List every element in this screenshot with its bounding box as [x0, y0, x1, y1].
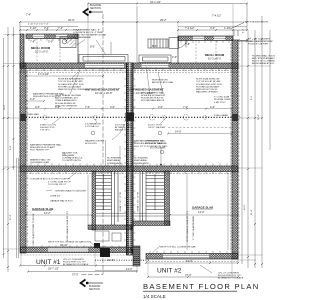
svg-text:10'-2 x 8'-3: 10'-2 x 8'-3: [208, 57, 221, 61]
svg-text:7'-4": 7'-4": [26, 13, 31, 17]
svg-text:GARAGE SLAB: GARAGE SLAB: [32, 207, 53, 211]
svg-text:1'-10": 1'-10": [30, 26, 37, 30]
svg-text:4" CONC SLAB PITCH: 4" CONC SLAB PITCH: [48, 180, 71, 183]
svg-text:AT BEAM W/ STOCKADE: AT BEAM W/ STOCKADE: [63, 263, 89, 266]
svg-text:BED, BTM PLATE ANCHOR: BED, BTM PLATE ANCHOR: [252, 57, 275, 60]
svg-text:16'-0": 16'-0": [186, 259, 193, 263]
svg-text:7'-4 1/2": 7'-4 1/2": [212, 13, 222, 17]
svg-text:GARAGE SLAB: GARAGE SLAB: [192, 205, 213, 209]
svg-text:MECH. ROOM: MECH. ROOM: [205, 53, 225, 57]
svg-text:SHADOW OPENINGS: SHADOW OPENINGS: [55, 104, 78, 107]
svg-text:30'-0": 30'-0": [4, 104, 6, 110]
svg-text:LOWER BATH: LOWER BATH: [134, 162, 149, 165]
svg-text:21'-4": 21'-4": [251, 209, 253, 215]
svg-text:37'-0": 37'-0": [72, 272, 79, 276]
svg-text:AND TUB AREAS. SET: AND TUB AREAS. SET: [55, 97, 79, 100]
svg-text:ABOVE FLATS SLAB: ABOVE FLATS SLAB: [152, 81, 174, 84]
svg-text:BASEMENT FLOOR PLAN: BASEMENT FLOOR PLAN: [143, 282, 260, 291]
svg-text:CONCRETE BLOCK TO FROST DEPTH: CONCRETE BLOCK TO FROST DEPTH: [30, 178, 70, 180]
svg-text:17'-4 1/2": 17'-4 1/2": [38, 72, 49, 76]
svg-text:WALL EA SIDE W/ CONC: WALL EA SIDE W/ CONC: [248, 40, 274, 43]
svg-text:11'-6": 11'-6": [108, 258, 114, 262]
svg-text:FUTURE (42x36) BATH: FUTURE (42x36) BATH: [196, 85, 220, 88]
svg-text:WINDOW NOTCH OPENING: WINDOW NOTCH OPENING: [58, 89, 87, 91]
svg-text:ON 12" DIA PIER: ON 12" DIA PIER: [148, 126, 165, 129]
svg-text:AND MEMBRANE: AND MEMBRANE: [73, 36, 91, 39]
svg-text:DROP SLAB AT SHOWER: DROP SLAB AT SHOWER: [55, 94, 81, 97]
svg-text:4" CONC SLAB W/ WWM: 4" CONC SLAB W/ WWM: [192, 216, 195, 240]
svg-text:CONC KNEE WALL: CONC KNEE WALL: [20, 113, 40, 116]
svg-text:CURB 3/4": CURB 3/4": [50, 195, 61, 197]
svg-text:INSULATE W/ R-13 BATT: INSULATE W/ R-13 BATT: [30, 146, 56, 149]
svg-text:BEARING WALL ON: BEARING WALL ON: [30, 158, 51, 161]
svg-text:HOOK-UPS: HOOK-UPS: [85, 143, 97, 145]
svg-text:8'-0": 8'-0": [90, 45, 95, 49]
svg-text:12'-4": 12'-4": [10, 214, 12, 220]
svg-text:POURED WALL IN STONE: POURED WALL IN STONE: [252, 54, 275, 57]
svg-text:HOSE BIB W/ SHADOW: HOSE BIB W/ SHADOW: [141, 94, 166, 97]
svg-text:14'-0": 14'-0": [175, 130, 182, 134]
svg-text:UNFINISHED BASEMENT: UNFINISHED BASEMENT: [129, 88, 164, 92]
svg-text:4" CONC SLAB: 4" CONC SLAB: [214, 96, 230, 99]
svg-text:8'-0": 8'-0": [152, 44, 157, 48]
svg-text:7'-8": 7'-8": [185, 42, 190, 46]
svg-text:TYP OF 6: TYP OF 6: [40, 130, 50, 132]
svg-text:2x4 STUD WALL: 2x4 STUD WALL: [115, 123, 132, 126]
svg-text:TYP CONCRETE WALL: TYP CONCRETE WALL: [141, 91, 165, 94]
svg-text:STL BM ABOVE: STL BM ABOVE: [85, 122, 101, 125]
svg-text:TYP. BASEMENT WALL: 8": TYP. BASEMENT WALL: 8": [73, 28, 100, 31]
svg-text:4'-0": 4'-0": [158, 105, 163, 109]
svg-text:19'-0": 19'-0": [244, 204, 246, 210]
svg-text:DRAIN TILE IN WASHED STONE: DRAIN TILE IN WASHED STONE: [73, 34, 107, 37]
svg-text:FUTURE (42x36) BATH: FUTURE (42x36) BATH: [58, 85, 82, 88]
svg-text:UNFINISHED BASEMENT: UNFINISHED BASEMENT: [85, 88, 120, 92]
svg-text:14'-2": 14'-2": [198, 210, 205, 214]
svg-text:4'-0": 4'-0": [35, 105, 40, 109]
svg-text:1/4 SCALE: 1/4 SCALE: [143, 294, 166, 299]
svg-text:16R AT 7 3/4" / 10" TR: 16R AT 7 3/4" / 10" TR: [137, 191, 140, 212]
svg-text:FILLED 8" DIA PIER: FILLED 8" DIA PIER: [248, 43, 268, 46]
svg-text:HOSE BIB IN BASEMENT: HOSE BIB IN BASEMENT: [58, 78, 84, 81]
svg-text:6 MIL POLY: 6 MIL POLY: [214, 102, 226, 104]
svg-text:7'-8": 7'-8": [30, 40, 35, 44]
svg-text:SLOPE GARAGE SLAB 1/8" / FT: SLOPE GARAGE SLAB 1/8" / FT: [186, 211, 189, 242]
svg-text:BASEMENT PERIMETER WALL: BASEMENT PERIMETER WALL: [134, 140, 167, 143]
svg-text:BSMT AREA: BSMT AREA: [134, 159, 147, 162]
svg-text:FULL HEIGHT TYP: FULL HEIGHT TYP: [30, 150, 49, 152]
svg-text:BASEMENT PERIMETER WALL: BASEMENT PERIMETER WALL: [30, 143, 63, 146]
svg-text:29'-7 1/2": 29'-7 1/2": [48, 267, 59, 271]
svg-text:14'-2": 14'-2": [44, 211, 51, 215]
svg-text:ROUGH-IN BATH W/: ROUGH-IN BATH W/: [55, 102, 76, 105]
svg-text:EA SIDE 1HR: EA SIDE 1HR: [115, 129, 129, 132]
svg-text:1'-10": 1'-10": [224, 26, 231, 30]
svg-text:29'-2": 29'-2": [160, 18, 167, 22]
svg-text:LOWER BATH: LOWER BATH: [107, 162, 122, 165]
svg-text:POST EA SIDE ABOVE: POST EA SIDE ABOVE: [245, 20, 269, 23]
svg-text:MASONRY OPENING: MASONRY OPENING: [196, 91, 218, 94]
svg-text:3'-4": 3'-4": [210, 26, 215, 30]
svg-text:16R AT 7 3/4" / 10" TR: 16R AT 7 3/4" / 10" TR: [119, 191, 122, 212]
svg-text:9'-8": 9'-8": [10, 145, 12, 150]
svg-text:3'-0": 3'-0": [48, 40, 53, 44]
svg-text:UNIT #2: UNIT #2: [157, 268, 182, 275]
svg-text:NOTE SLAB IS BELOW: NOTE SLAB IS BELOW: [196, 78, 220, 81]
svg-text:9'-0": 9'-0": [251, 95, 253, 100]
svg-text:DROP TOP SILL COURSE ON GAR DO: DROP TOP SILL COURSE ON GAR DOOR: [48, 240, 91, 243]
svg-text:SECTION: SECTION: [90, 7, 101, 10]
svg-text:SLOPE GARAGE SLAB 1/8" / FT: SLOPE GARAGE SLAB 1/8" / FT: [66, 211, 69, 242]
svg-text:TO DOOR 1/8 / FT: TO DOOR 1/8 / FT: [48, 184, 67, 186]
svg-text:3'-4": 3'-4": [44, 26, 49, 30]
svg-text:DROP TOP SILL COURSE ON GAR: DROP TOP SILL COURSE ON GAR: [160, 246, 196, 249]
svg-text:BSMT AREA: BSMT AREA: [107, 159, 120, 162]
svg-text:4'-0": 4'-0": [210, 105, 215, 109]
svg-text:4'-0": 4'-0": [172, 55, 177, 59]
svg-text:3-1/2 DIA COL: 3-1/2 DIA COL: [85, 125, 100, 128]
svg-text:AT BEAM W/ STOCKADE: AT BEAM W/ STOCKADE: [218, 277, 244, 280]
svg-text:7'-0": 7'-0": [85, 105, 90, 109]
svg-text:STEEL BEAM: STEEL BEAM: [214, 114, 228, 117]
svg-text:ANCHORAGE AT SILL TYP: ANCHORAGE AT SILL TYP: [252, 62, 275, 65]
svg-text:TOP OF SILL AT 48" AFF: TOP OF SILL AT 48" AFF: [196, 80, 221, 83]
svg-text:4" CONC SLAB PITCHED TO DOOR: 4" CONC SLAB PITCHED TO DOOR: [32, 213, 35, 248]
svg-text:VISIBLE AREA UNITS: VISIBLE AREA UNITS: [55, 99, 77, 102]
svg-text:37'-0": 37'-0": [185, 273, 192, 277]
svg-text:4'-0": 4'-0": [110, 105, 115, 109]
svg-text:INSULATE W/ R-13 IN THERMAL: INSULATE W/ R-13 IN THERMAL: [134, 142, 168, 145]
svg-text:GARAGE WALTS R 13: GARAGE WALTS R 13: [50, 199, 73, 202]
svg-text:44'-1 1/2": 44'-1 1/2": [150, 0, 161, 4]
svg-text:1'-10" 3'-4" 2'-0" 7'-4": 1'-10" 3'-4" 2'-0" 7'-4": [28, 24, 49, 26]
svg-text:THICKENED SLAB: THICKENED SLAB: [30, 161, 49, 164]
svg-text:FULL HT TO FOUNDATION WALL: FULL HT TO FOUNDATION WALL: [134, 145, 168, 148]
svg-text:40'-0": 40'-0": [68, 18, 75, 22]
svg-text:7'-0": 7'-0": [183, 105, 188, 109]
svg-text:UNIT #1: UNIT #1: [36, 259, 61, 266]
svg-text:10'-2 x 8'-0: 10'-2 x 8'-0: [35, 50, 48, 54]
svg-text:7'-4": 7'-4": [58, 26, 63, 30]
svg-text:MECH. ROOM: MECH. ROOM: [31, 46, 51, 50]
svg-text:7'-4 1/2": 7'-4 1/2": [185, 26, 195, 30]
svg-text:TO FROST DEPTH: TO FROST DEPTH: [62, 160, 81, 162]
svg-text:WASHER / DRYER: WASHER / DRYER: [85, 139, 104, 142]
svg-text:14'-0": 14'-0": [126, 267, 133, 271]
svg-text:4'-4": 4'-4": [243, 28, 245, 33]
svg-text:28'-4": 28'-4": [258, 114, 260, 120]
svg-text:TOP OF SILL AT 48" AFF: TOP OF SILL AT 48" AFF: [58, 80, 83, 83]
svg-text:CENTER DRAIN TO DAYLIGHT: CENTER DRAIN TO DAYLIGHT: [55, 189, 87, 192]
svg-text:16'-10" x 26'-8": 16'-10" x 26'-8": [95, 91, 112, 95]
svg-text:FUTURE BATH ABOVE: FUTURE BATH ABOVE: [141, 99, 165, 102]
svg-text:SECTION: SECTION: [89, 288, 100, 291]
